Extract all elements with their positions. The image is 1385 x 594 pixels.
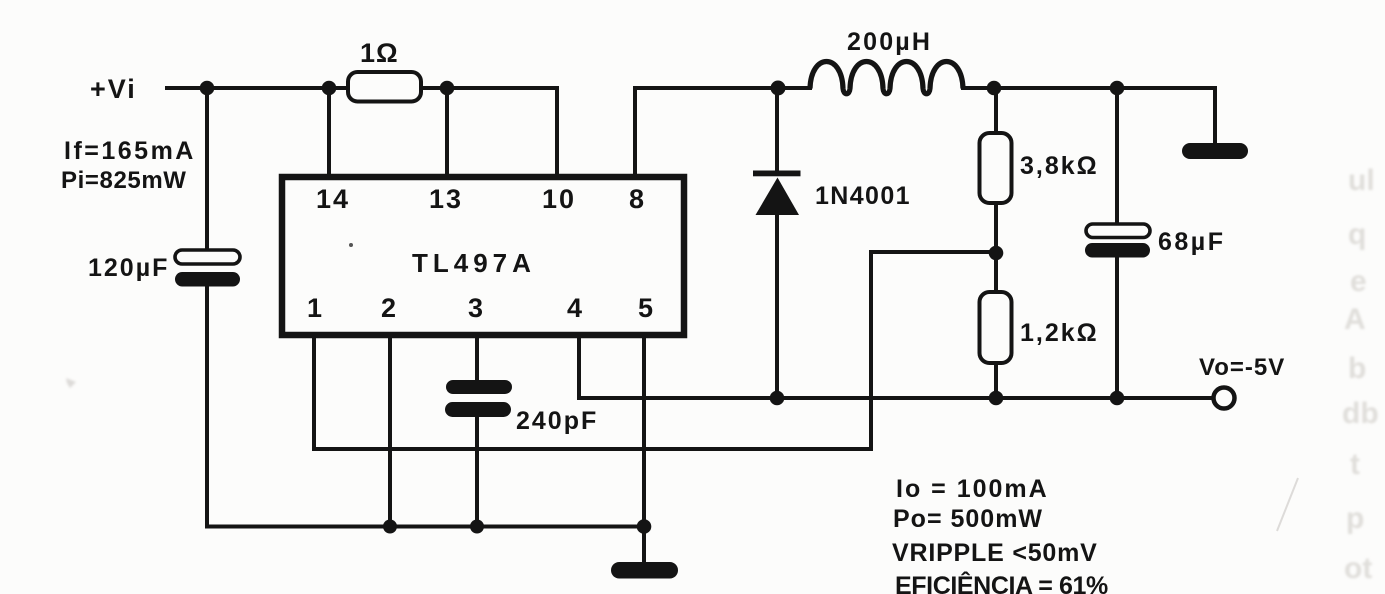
svg-text:t: t bbox=[1350, 448, 1360, 481]
svg-text:TL497A: TL497A bbox=[412, 248, 536, 278]
svg-text:q: q bbox=[1348, 218, 1366, 251]
svg-text:8: 8 bbox=[629, 184, 644, 214]
svg-text:Po= 500mW: Po= 500mW bbox=[893, 505, 1043, 533]
svg-text:VRIPPLE <50mV: VRIPPLE <50mV bbox=[892, 539, 1098, 567]
svg-text:10: 10 bbox=[542, 184, 576, 214]
svg-text:db: db bbox=[1342, 397, 1379, 430]
svg-text:2: 2 bbox=[381, 293, 396, 323]
svg-text:If=165mA: If=165mA bbox=[64, 137, 196, 165]
svg-text:EFICIÊNCIA = 61%: EFICIÊNCIA = 61% bbox=[895, 570, 1108, 594]
svg-text:e: e bbox=[1350, 265, 1367, 298]
svg-text:120µF: 120µF bbox=[88, 254, 169, 282]
svg-text:Pi=825mW: Pi=825mW bbox=[61, 167, 187, 194]
svg-text:+Vi: +Vi bbox=[90, 74, 137, 104]
svg-text:68µF: 68µF bbox=[1158, 228, 1225, 256]
svg-text:1,2kΩ: 1,2kΩ bbox=[1020, 319, 1099, 347]
svg-text:14: 14 bbox=[316, 184, 350, 214]
svg-text:b: b bbox=[1348, 352, 1366, 385]
svg-text:Io = 100mA: Io = 100mA bbox=[896, 475, 1049, 503]
svg-text:3: 3 bbox=[468, 293, 483, 323]
svg-text:200µH: 200µH bbox=[847, 28, 932, 56]
svg-text:240pF: 240pF bbox=[516, 407, 598, 435]
svg-text:p: p bbox=[1346, 502, 1364, 535]
svg-text:1N4001: 1N4001 bbox=[815, 182, 911, 210]
svg-text:4: 4 bbox=[567, 293, 582, 323]
svg-text:5: 5 bbox=[638, 293, 653, 323]
svg-text:13: 13 bbox=[429, 184, 463, 214]
svg-text:1Ω: 1Ω bbox=[360, 38, 399, 68]
svg-text:Vo=-5V: Vo=-5V bbox=[1199, 354, 1285, 381]
svg-text:ul: ul bbox=[1348, 164, 1375, 197]
svg-text:A: A bbox=[1344, 303, 1366, 336]
svg-text:3,8kΩ: 3,8kΩ bbox=[1020, 152, 1099, 180]
svg-text:1: 1 bbox=[307, 293, 322, 323]
svg-text:ot: ot bbox=[1344, 552, 1372, 585]
